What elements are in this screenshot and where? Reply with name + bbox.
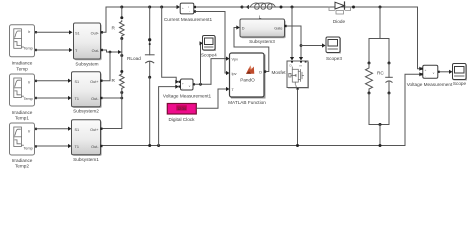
source block Irradiance Temp — [10, 25, 38, 72]
svg-text:MATLAB Function: MATLAB Function — [228, 100, 266, 105]
svg-text:Out+: Out+ — [91, 31, 100, 35]
mosfet block Mosfet — [287, 61, 309, 90]
MATLAB function block PandO — [228, 53, 266, 105]
scope block Scope — [453, 64, 468, 87]
RC branch drop from rail — [369, 6, 389, 64]
PV subsystem block Subsystem1 — [72, 120, 103, 162]
source block Irradiance Temp2 — [10, 123, 38, 169]
wire load rail vertical to Subsystem1 Out+ — [103, 93, 122, 129]
svg-text:Subsystem1: Subsystem1 — [73, 157, 99, 162]
PWM subsystem block Subsystem3 — [240, 19, 287, 44]
svg-text:Temp: Temp — [24, 47, 33, 51]
svg-text:Current Measurement1: Current Measurement1 — [164, 17, 213, 22]
svg-text:Irradiance: Irradiance — [12, 61, 33, 66]
svg-text:Subsystem3: Subsystem3 — [249, 39, 275, 44]
diode Diode — [329, 2, 355, 24]
top rail wire — [106, 6, 418, 8]
svg-text:+: + — [425, 68, 427, 72]
svg-text:+: + — [182, 81, 184, 85]
svg-text:+: + — [182, 6, 184, 10]
wire Ir to Subsystem S1 — [37, 30, 73, 34]
svg-text:Temp: Temp — [24, 147, 33, 151]
wire mosfet source to bottom rail — [296, 90, 299, 147]
svg-text:Irradiance: Irradiance — [12, 110, 33, 115]
junction gate to scope3 — [300, 43, 326, 47]
svg-text:RLoad: RLoad — [127, 56, 141, 61]
svg-text:-: - — [182, 87, 183, 91]
mosfet symbol — [292, 69, 298, 82]
svg-text:Scope4: Scope4 — [201, 53, 217, 58]
svg-text:-: - — [425, 74, 426, 78]
wire main styles container — [10, 2, 468, 169]
svg-text:T1: T1 — [75, 97, 79, 101]
svg-text:R: R — [112, 78, 116, 83]
svg-text:S1: S1 — [75, 31, 80, 35]
scope block Scope3 — [326, 37, 342, 61]
wire Temp2 to Subsystem1 T1 — [37, 144, 72, 148]
svg-text:L: L — [259, 15, 262, 20]
wire Temp to Subsystem T — [37, 48, 73, 52]
MATLAB membrane logo — [246, 67, 254, 74]
current measurement block Current Measurement1 — [164, 3, 213, 22]
svg-text:D: D — [259, 71, 262, 75]
PV subsystem block Subsystem — [74, 23, 104, 66]
svg-text:Out-: Out- — [91, 145, 99, 149]
source block Irradiance Temp1 — [10, 74, 38, 120]
svg-text:Voltage Measurement1: Voltage Measurement1 — [163, 94, 212, 99]
svg-text:Gate: Gate — [274, 27, 282, 31]
RC branch bottom join — [369, 93, 389, 147]
wire Temp1 to Subsystem2 T1 — [37, 96, 72, 100]
wire Subsystem2 Out- to load rail — [103, 97, 123, 100]
svg-text:Temp: Temp — [24, 97, 33, 101]
svg-text:Temp: Temp — [16, 66, 28, 71]
wire D output to Subsystem3 input — [234, 25, 269, 71]
svg-text:T1: T1 — [75, 145, 79, 149]
resistor RLoad (lower load) — [112, 52, 142, 98]
svg-text:Digital Clock: Digital Clock — [168, 117, 195, 122]
wire v signal to scope4 and Vpv — [195, 41, 230, 86]
wire Subsystem Out- to load junction — [103, 50, 122, 54]
resistor R (top load) — [112, 6, 125, 53]
svg-text:Out+: Out+ — [90, 80, 99, 84]
wire top rail right corner to VM plus — [418, 7, 423, 71]
svg-text:Out+: Out+ — [90, 128, 99, 132]
svg-text:D: D — [242, 27, 245, 31]
wire i signal from Current Measurement1 to Ipv — [196, 12, 230, 76]
svg-text:Ipv: Ipv — [232, 72, 237, 76]
scope block Scope4 — [201, 36, 217, 58]
wire bottom rail riser to VM minus — [405, 72, 423, 145]
svg-text:R: R — [112, 26, 116, 31]
svg-text:Out-: Out- — [91, 97, 99, 101]
voltage measurement tap + from top rail — [160, 6, 179, 84]
capacitor of RC branch — [386, 62, 393, 95]
svg-text:Diode: Diode — [333, 19, 346, 24]
svg-text:Out-: Out- — [92, 49, 100, 53]
digital clock block Digital Clock — [167, 104, 196, 123]
svg-text:12:34: 12:34 — [177, 107, 186, 111]
svg-text:Scope: Scope — [453, 81, 467, 86]
svg-text:Irradiance: Irradiance — [12, 158, 33, 163]
svg-text:Subsystem2: Subsystem2 — [73, 108, 99, 113]
bottom rail wire from Subsystem1 Out- — [103, 145, 405, 147]
capacitor C (input filter) — [145, 6, 154, 148]
svg-text:Temp1: Temp1 — [15, 115, 29, 120]
wire Gate to mosfet gate — [287, 26, 303, 61]
svg-text:Scope3: Scope3 — [326, 56, 342, 61]
svg-text:Subsystem: Subsystem — [75, 61, 98, 66]
voltage measurement block Voltage Measurement — [407, 65, 453, 87]
svg-text:Temp2: Temp2 — [15, 164, 29, 169]
svg-text:Vpv: Vpv — [232, 58, 239, 62]
svg-text:S1: S1 — [75, 80, 80, 84]
voltage measurement block Voltage Measurement1 — [163, 79, 212, 99]
wire clock to T input — [197, 87, 230, 108]
svg-text:S1: S1 — [75, 128, 80, 132]
PV subsystem block Subsystem2 — [72, 72, 103, 114]
voltage measurement tap - from bottom rail — [157, 85, 179, 148]
svg-text:Mosfet: Mosfet — [272, 70, 287, 75]
svg-text:Voltage Measurement: Voltage Measurement — [407, 82, 453, 87]
wire Subsystem Out+ riser to top rail — [103, 7, 106, 32]
svg-text:-: - — [189, 10, 190, 14]
svg-text:PandO: PandO — [240, 78, 255, 83]
mosfet label — [272, 70, 287, 75]
resistor of RC branch — [366, 62, 385, 95]
wire Ir1 to Subsystem2 S1 — [37, 79, 72, 83]
wire VM to Scope — [440, 70, 453, 74]
wire Ir2 to Subsystem1 S1 — [37, 127, 72, 131]
inductor L — [241, 3, 283, 20]
junction at x110 — [103, 51, 111, 81]
svg-text:m: m — [300, 63, 303, 67]
wire top rail to mosfet drain — [290, 6, 294, 61]
svg-text:RC: RC — [377, 71, 384, 76]
